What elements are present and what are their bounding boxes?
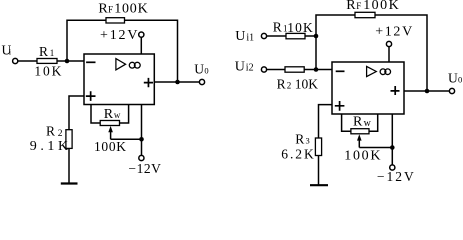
node Ui input terminal: [13, 58, 18, 63]
potentiometer RW body: [100, 121, 119, 126]
svg-text:U: U: [235, 29, 245, 44]
wire offset pin right stub: [120, 105, 129, 123]
node +12V terminal: [139, 32, 144, 37]
wire output (right): [404, 90, 450, 92]
svg-text:U: U: [235, 59, 245, 74]
wire feedback right to output junction: [125, 20, 178, 82]
node Ui2 input terminal: [261, 67, 266, 72]
svg-text:3: 3: [306, 136, 310, 146]
svg-text:R: R: [39, 44, 48, 59]
wire output: [154, 81, 199, 83]
potentiometer RW wiper arrow: [110, 130, 112, 140]
resistor R2: [66, 130, 72, 149]
node -12V terminal: [139, 155, 144, 160]
op-amp U1 plus input sign: [86, 91, 96, 101]
resistor RF: [106, 18, 125, 23]
wire op-amp bottom to -12V terminal (right): [391, 114, 393, 165]
node U0 output terminal: [199, 79, 204, 84]
svg-text:R: R: [104, 107, 114, 122]
wire wiper to -12V line: [111, 138, 142, 140]
op-amp U2 plus output sign: [391, 86, 400, 95]
op-amp U2 minus sign: [336, 70, 345, 72]
svg-text:2: 2: [287, 81, 292, 91]
wire wiper to -12V line (right): [359, 147, 392, 149]
svg-text:R: R: [295, 131, 304, 146]
ground (right): [310, 184, 328, 186]
wire Ui to R1: [18, 60, 37, 62]
svg-text:100K: 100K: [94, 139, 126, 154]
svg-text:10K: 10K: [287, 20, 313, 35]
resistor R1: [37, 59, 57, 64]
svg-text:0: 0: [204, 66, 208, 76]
resistor R2 (right): [285, 67, 304, 72]
node U0 output terminal (right): [449, 88, 454, 93]
wire +12V to op-amp top: [140, 37, 142, 54]
node junction R1: [314, 34, 319, 39]
svg-text:100K: 100K: [114, 2, 148, 17]
node junction at R1 output: [65, 59, 70, 64]
wire R1 to summing node: [305, 35, 316, 37]
op-amp U2 plus input sign: [335, 101, 345, 111]
ground: [61, 182, 78, 184]
wire R3 to ground: [318, 156, 320, 185]
svg-text:10K: 10K: [34, 63, 61, 78]
wire offset pin left stub: [91, 105, 100, 123]
potentiometer RW body (right): [351, 129, 369, 134]
node junction R2: [314, 67, 319, 72]
node Ui1 input terminal: [261, 33, 266, 38]
svg-text:F: F: [108, 5, 113, 15]
resistor R3: [315, 138, 321, 156]
svg-text:F: F: [356, 1, 361, 11]
svg-text:10K: 10K: [295, 76, 318, 91]
svg-text:100K: 100K: [363, 0, 399, 13]
wire +12V to op-amp top (right): [388, 46, 390, 62]
svg-text:R: R: [273, 19, 282, 34]
wire Ui2 to R2: [266, 69, 285, 71]
op-amp U1 plus output sign: [144, 78, 153, 87]
op-amp U1 ideal triangle symbol: [116, 59, 126, 70]
svg-text:R: R: [46, 124, 55, 139]
svg-text:i2: i2: [246, 63, 254, 74]
svg-text:U: U: [194, 62, 204, 77]
op-amp U1 infinity symbol: [129, 62, 135, 68]
wire feedback left vertical: [67, 20, 106, 61]
op-amp U2 body: [332, 62, 404, 114]
op-amp U1 minus sign: [86, 61, 95, 63]
svg-text:U: U: [448, 71, 458, 86]
wire feedback right to output junction: [375, 15, 427, 91]
svg-text:100K: 100K: [344, 149, 380, 164]
node junction at output (right): [425, 89, 430, 94]
wire plus input to R2: [69, 96, 84, 130]
wire offset pin right stub (right): [369, 114, 378, 131]
node +12V terminal (right): [386, 41, 391, 46]
svg-text:+12V: +12V: [100, 28, 138, 43]
svg-text:9.1K: 9.1K: [30, 139, 68, 154]
wire op-amp bottom to -12V terminal: [141, 105, 143, 156]
wire summing node vertical / feedback left: [316, 15, 355, 70]
svg-text:R: R: [353, 115, 363, 130]
wire R2 to op-amp inverting input: [304, 69, 332, 71]
node -12V terminal (right): [390, 165, 395, 170]
node junction at output: [175, 80, 180, 85]
op-amp U2 ideal triangle symbol: [367, 66, 377, 76]
wire offset pin left stub (right): [342, 114, 351, 131]
svg-text:−12V: −12V: [128, 161, 161, 176]
wire Ui1 to R1: [266, 35, 286, 37]
svg-text:i1: i1: [246, 32, 254, 43]
svg-text:w: w: [364, 118, 372, 129]
op-amp U2 infinity symbol: [380, 69, 386, 75]
wire plus input to R3: [319, 105, 333, 138]
svg-text:2: 2: [58, 129, 63, 139]
svg-text:R: R: [98, 2, 108, 17]
potentiometer RW wiper arrow (right): [358, 138, 360, 148]
svg-text:w: w: [114, 110, 121, 120]
svg-text:0: 0: [458, 75, 462, 85]
svg-text:−12V: −12V: [377, 169, 414, 184]
wire R1 to op-amp inverting input: [57, 60, 84, 62]
node junction wiper/-12V: [139, 137, 144, 142]
svg-text:6.2K: 6.2K: [281, 147, 314, 162]
svg-text:1: 1: [50, 48, 55, 58]
node junction wiper/-12V (right): [390, 145, 395, 150]
resistor R1 (right): [286, 33, 305, 38]
wire R2 to ground: [68, 148, 70, 183]
svg-text:R: R: [346, 0, 356, 13]
svg-text:i: i: [9, 47, 12, 57]
svg-text:+12V: +12V: [375, 25, 412, 40]
svg-text:R: R: [277, 76, 286, 91]
op-amp U1 body: [84, 54, 154, 105]
resistor RF (right): [355, 12, 375, 17]
